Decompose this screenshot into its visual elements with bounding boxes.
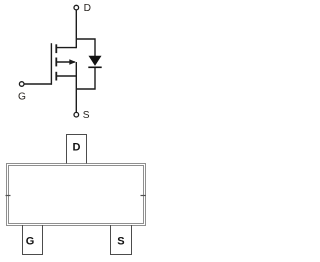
drain contact bar <box>55 44 57 53</box>
svg-text:D: D <box>84 3 91 14</box>
svg-text:S: S <box>117 235 124 247</box>
diode D1 triangle <box>89 56 102 66</box>
svg-text:D: D <box>73 142 81 154</box>
terminal G circle <box>19 82 24 87</box>
terminal D circle <box>74 5 79 10</box>
diode D1 cathode bar <box>88 66 101 68</box>
package body outer outline <box>7 164 146 226</box>
gate bar <box>50 43 52 84</box>
svg-text:G: G <box>26 236 35 248</box>
terminal S circle <box>74 112 79 117</box>
body contact bar <box>55 58 57 67</box>
right side tick <box>141 195 146 197</box>
wire source vertical <box>75 76 77 112</box>
wire body to source <box>75 62 77 76</box>
left side tick <box>6 195 11 197</box>
wire gate lead <box>24 83 52 85</box>
wire source lead <box>57 75 76 77</box>
wire drain vertical <box>75 10 77 48</box>
wire drain lead <box>56 47 76 49</box>
pin D tab <box>67 135 87 164</box>
pin G tab <box>23 225 43 255</box>
pin S tab <box>111 225 132 255</box>
wire diode top branch <box>76 39 95 56</box>
package body inner outline <box>9 166 144 224</box>
wire diode bottom branch <box>76 68 95 90</box>
arrowhead of body lead <box>69 59 76 65</box>
source contact bar <box>55 72 57 81</box>
svg-text:G: G <box>18 91 26 102</box>
transistor Q1 (P-channel MOSFET symbol) <box>19 5 95 117</box>
wire body lead with arrow <box>57 61 75 63</box>
svg-text:S: S <box>83 110 90 121</box>
